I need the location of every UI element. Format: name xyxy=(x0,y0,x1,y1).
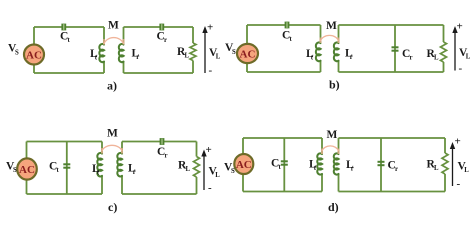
svg-text:AC: AC xyxy=(19,164,35,176)
svg-text:M: M xyxy=(107,128,118,140)
svg-text:a): a) xyxy=(107,79,117,93)
svg-text:M: M xyxy=(108,20,119,32)
svg-text:-: - xyxy=(459,63,463,75)
svg-text:+: + xyxy=(206,144,212,156)
svg-text:r: r xyxy=(351,166,354,173)
svg-text:L: L xyxy=(434,165,439,172)
svg-text:+: + xyxy=(455,136,461,148)
svg-text:S: S xyxy=(231,168,235,175)
svg-text:-: - xyxy=(208,182,212,194)
svg-text:AC: AC xyxy=(240,48,256,60)
svg-text:r: r xyxy=(350,54,353,61)
svg-text:-: - xyxy=(457,178,461,190)
svg-text:L: L xyxy=(216,54,221,61)
svg-text:L: L xyxy=(464,167,469,174)
svg-text:L: L xyxy=(215,172,220,179)
svg-text:b): b) xyxy=(329,78,340,92)
svg-text:r: r xyxy=(165,153,168,160)
svg-text:L: L xyxy=(466,54,471,61)
svg-text:L: L xyxy=(185,53,190,60)
svg-text:AC: AC xyxy=(26,49,42,61)
svg-text:r: r xyxy=(164,37,167,44)
svg-text:M: M xyxy=(326,20,337,32)
svg-text:r: r xyxy=(136,54,139,61)
svg-text:S: S xyxy=(232,49,236,56)
svg-text:AC: AC xyxy=(236,159,252,171)
svg-text:S: S xyxy=(15,50,19,57)
svg-text:S: S xyxy=(13,167,17,174)
svg-text:+: + xyxy=(207,22,213,34)
svg-text:M: M xyxy=(327,129,338,141)
svg-text:+: + xyxy=(457,21,463,33)
svg-text:r: r xyxy=(395,166,398,173)
svg-text:L: L xyxy=(186,166,191,173)
svg-text:r: r xyxy=(410,55,413,62)
svg-text:r: r xyxy=(133,169,136,176)
svg-text:L: L xyxy=(434,55,439,62)
svg-text:c): c) xyxy=(108,200,117,214)
svg-text:-: - xyxy=(209,65,213,77)
svg-text:d): d) xyxy=(328,200,339,214)
